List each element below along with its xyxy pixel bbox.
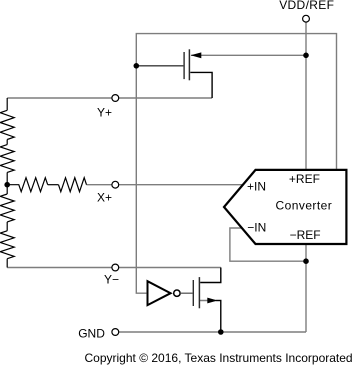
node: bus-gate junction dot (134, 63, 140, 69)
wire: PMOS gate wire from bus (136, 65, 183, 67)
transistor Q2 NMOS gate bar (192, 280, 194, 306)
resistor: X+ horizontal 2 (59, 178, 87, 192)
transistor Q2 NMOS channel bar (198, 277, 200, 308)
svg-text:GND: GND (78, 327, 105, 341)
resistor: Y+ to junction upper 1 (0, 110, 14, 139)
wire: Y+ net (7, 97, 212, 99)
wire: stub into junction (6, 172, 8, 194)
wire: NMOS source to GND net (199, 301, 220, 333)
svg-text:Converter: Converter (276, 198, 333, 212)
inverter U2 bubble (174, 290, 180, 296)
node: panel mid junction dot (4, 182, 10, 188)
wire: X+ net to converter +IN (87, 184, 244, 186)
wire: panel top lead (6, 98, 8, 110)
terminal GND circle (112, 329, 119, 336)
wire: bubble to NMOS gate (180, 292, 192, 294)
svg-text:+REF: +REF (289, 172, 320, 186)
node: GND junction dot (218, 329, 224, 335)
svg-text:Copyright © 2016, Texas Instru: Copyright © 2016, Texas Instruments Inco… (85, 351, 353, 365)
inverter U2 triangle (148, 281, 171, 305)
wire: GND net (119, 331, 306, 333)
resistor: Y+ to junction upper 2 (0, 145, 14, 173)
wire: Y- net (7, 267, 221, 269)
wire: -REF down to GND net (305, 245, 307, 332)
resistor: junction to Y- lower 2 (0, 231, 14, 259)
svg-text:VDD/REF: VDD/REF (279, 0, 334, 12)
node: VDD rail junction dot (303, 53, 309, 59)
wire: NMOS drain stub to Y- (200, 268, 221, 283)
wire: NMOS source corner (dark) (216, 301, 221, 333)
wire: -IN feedback loop (230, 228, 306, 261)
wire: VDD/REF rail down to converter +REF (305, 22, 307, 169)
transistor Q1 PMOS gate bar (183, 52, 185, 79)
wire: gate-drive bus from converter to switches (136, 34, 336, 294)
wire: PMOS drain to VDD rail (191, 54, 306, 56)
resistor: junction to Y- lower 1 (0, 194, 14, 222)
transistor Q2 NMOS source arrowhead (207, 298, 217, 304)
terminal VDD/REF circle (303, 15, 310, 22)
terminal Y- circle (112, 264, 119, 271)
converter U1 body (224, 170, 346, 244)
transistor Q1 PMOS channel bar (188, 49, 190, 80)
wire: stub between upper resistors (6, 140, 8, 145)
node: -REF junction dot (303, 258, 309, 264)
svg-text:−IN: −IN (247, 220, 266, 234)
svg-text:Y+: Y+ (97, 106, 112, 120)
svg-text:+IN: +IN (247, 179, 266, 193)
svg-text:−REF: −REF (290, 228, 321, 242)
wire: stub between X resistors (48, 184, 59, 186)
svg-text:X+: X+ (97, 190, 112, 204)
terminal X+ circle (112, 181, 119, 188)
resistor: X+ horizontal 1 (7, 178, 48, 192)
svg-text:Y−: Y− (104, 272, 119, 286)
transistor Q1 PMOS drain arrowhead (191, 52, 202, 58)
wire: panel bottom lead (6, 259, 8, 268)
wire: PMOS source stub to Y+ (190, 72, 212, 98)
terminal Y+ circle (112, 95, 119, 102)
wire: stub between lower resistors (6, 222, 8, 231)
